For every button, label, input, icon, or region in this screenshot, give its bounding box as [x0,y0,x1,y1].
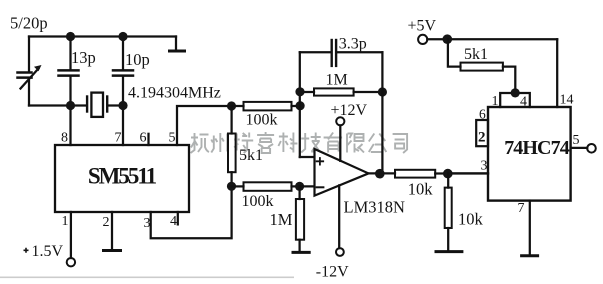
svg-text:6: 6 [479,107,486,122]
pin 3 wire to node B [151,186,232,238]
svg-text:4.194304MHz: 4.194304MHz [128,85,221,102]
svg-text:3.3p: 3.3p [339,36,367,53]
pin 1 wire and +1.5V terminal [70,212,72,258]
svg-text:10k: 10k [458,210,484,229]
svg-text:LM318N: LM318N [344,198,406,217]
svg-text:2: 2 [103,215,110,230]
wire: bracket to pins 1 and 4 [500,93,530,107]
resistor R4 1M (feedback) [300,91,314,93]
svg-text:5/20p: 5/20p [10,14,48,33]
pin 7 wire and ground [529,201,531,254]
node: top rail junctions [66,32,75,41]
node: bottom rail junctions [66,101,75,110]
crystal X1 4.194304MHz [86,97,88,112]
resistor R6 10k (horizontal) [395,170,435,178]
svg-text:13p: 13p [71,48,96,67]
node C junction (non-inv input column) [296,101,305,110]
supply label +1.5V [24,248,29,253]
svg-text:2: 2 [478,130,486,146]
pin 3 wire (74HC74) [452,172,488,174]
svg-text:100k: 100k [242,193,274,210]
wire: bottom oscillator rail [29,104,87,106]
terminal -12V [338,185,340,248]
svg-text:7: 7 [115,131,122,146]
terminal +12V [339,125,341,160]
svg-text:10k: 10k [408,180,434,199]
svg-text:+5V: +5V [408,18,437,35]
node B' junction (inv input) [295,182,304,191]
resistor R7 10k (vertical to ground) [447,174,449,188]
node A junction [227,101,236,110]
terminal +5V [418,35,427,44]
svg-text:74HC74: 74HC74 [504,137,570,159]
wire: top oscillator rail [29,35,176,37]
svg-text:8: 8 [61,131,68,146]
svg-text:5k1: 5k1 [464,46,488,63]
small box pin 6 / section 2 [476,120,488,146]
svg-text:1: 1 [492,94,499,109]
svg-text:100k: 100k [246,112,278,129]
capacitor C1 13p [69,37,71,70]
ground (below R7) [436,250,462,253]
svg-text:+12V: +12V [331,102,368,119]
pin 5 wire to node A [177,106,232,145]
svg-text:-12V: -12V [316,264,349,281]
pin 5 wire and output terminal [571,147,588,149]
resistor R2 5k1 (vertical) [230,106,232,134]
wire: right feedback column [381,52,383,174]
svg-text:4: 4 [520,95,527,110]
capacitor CV 5/20p (variable, left branch) [28,37,30,72]
svg-text:1: 1 [62,214,69,229]
svg-text:6: 6 [140,131,147,146]
IC U3 74HC74 box [488,107,571,201]
svg-text:3: 3 [144,216,151,231]
svg-text:3: 3 [481,159,488,174]
svg-text:5: 5 [169,131,176,146]
wire: - input row [300,185,315,187]
svg-text:1.5V: 1.5V [32,243,64,260]
capacitor C3 3.3p (feedback) [300,51,331,53]
capacitor C2 10p [122,37,124,70]
ground (top right of oscillator) [175,37,177,51]
wire: +5V down to pin 14 [556,39,558,107]
node B junction [227,182,236,191]
resistor R3 100k (lower) [232,185,244,187]
svg-text:14: 14 [560,93,574,108]
wire: op-amp output [369,172,396,174]
svg-text:SM5511: SM5511 [88,164,157,189]
pin 2 wire and ground [111,212,113,249]
resistor R5 1M (to ground at inverting input) [298,186,300,199]
faint scan line bottom [0,277,294,279]
svg-text:1M: 1M [270,210,293,229]
wire: + input row [300,156,315,158]
op-amp U2 LM318N [315,149,369,196]
svg-text:7: 7 [518,201,525,216]
svg-text:5: 5 [573,133,580,148]
svg-text:4: 4 [170,214,177,229]
resistor R1 100k (upper) [232,105,244,107]
svg-text:10p: 10p [125,50,150,69]
svg-text:1M: 1M [326,72,348,89]
svg-text:5k1: 5k1 [239,147,263,164]
resistor R8 5k1 (+5V to pins 1,4) [448,39,461,66]
ground (below R5) [293,251,309,254]
pin 6 stub (SM5511) [147,134,149,145]
watermark 杭州将睿科技有限公司 [191,132,408,153]
wire: left feedback column [299,52,301,157]
IC U1 SM5511 box [55,145,189,212]
pin 4 stub [177,212,179,224]
